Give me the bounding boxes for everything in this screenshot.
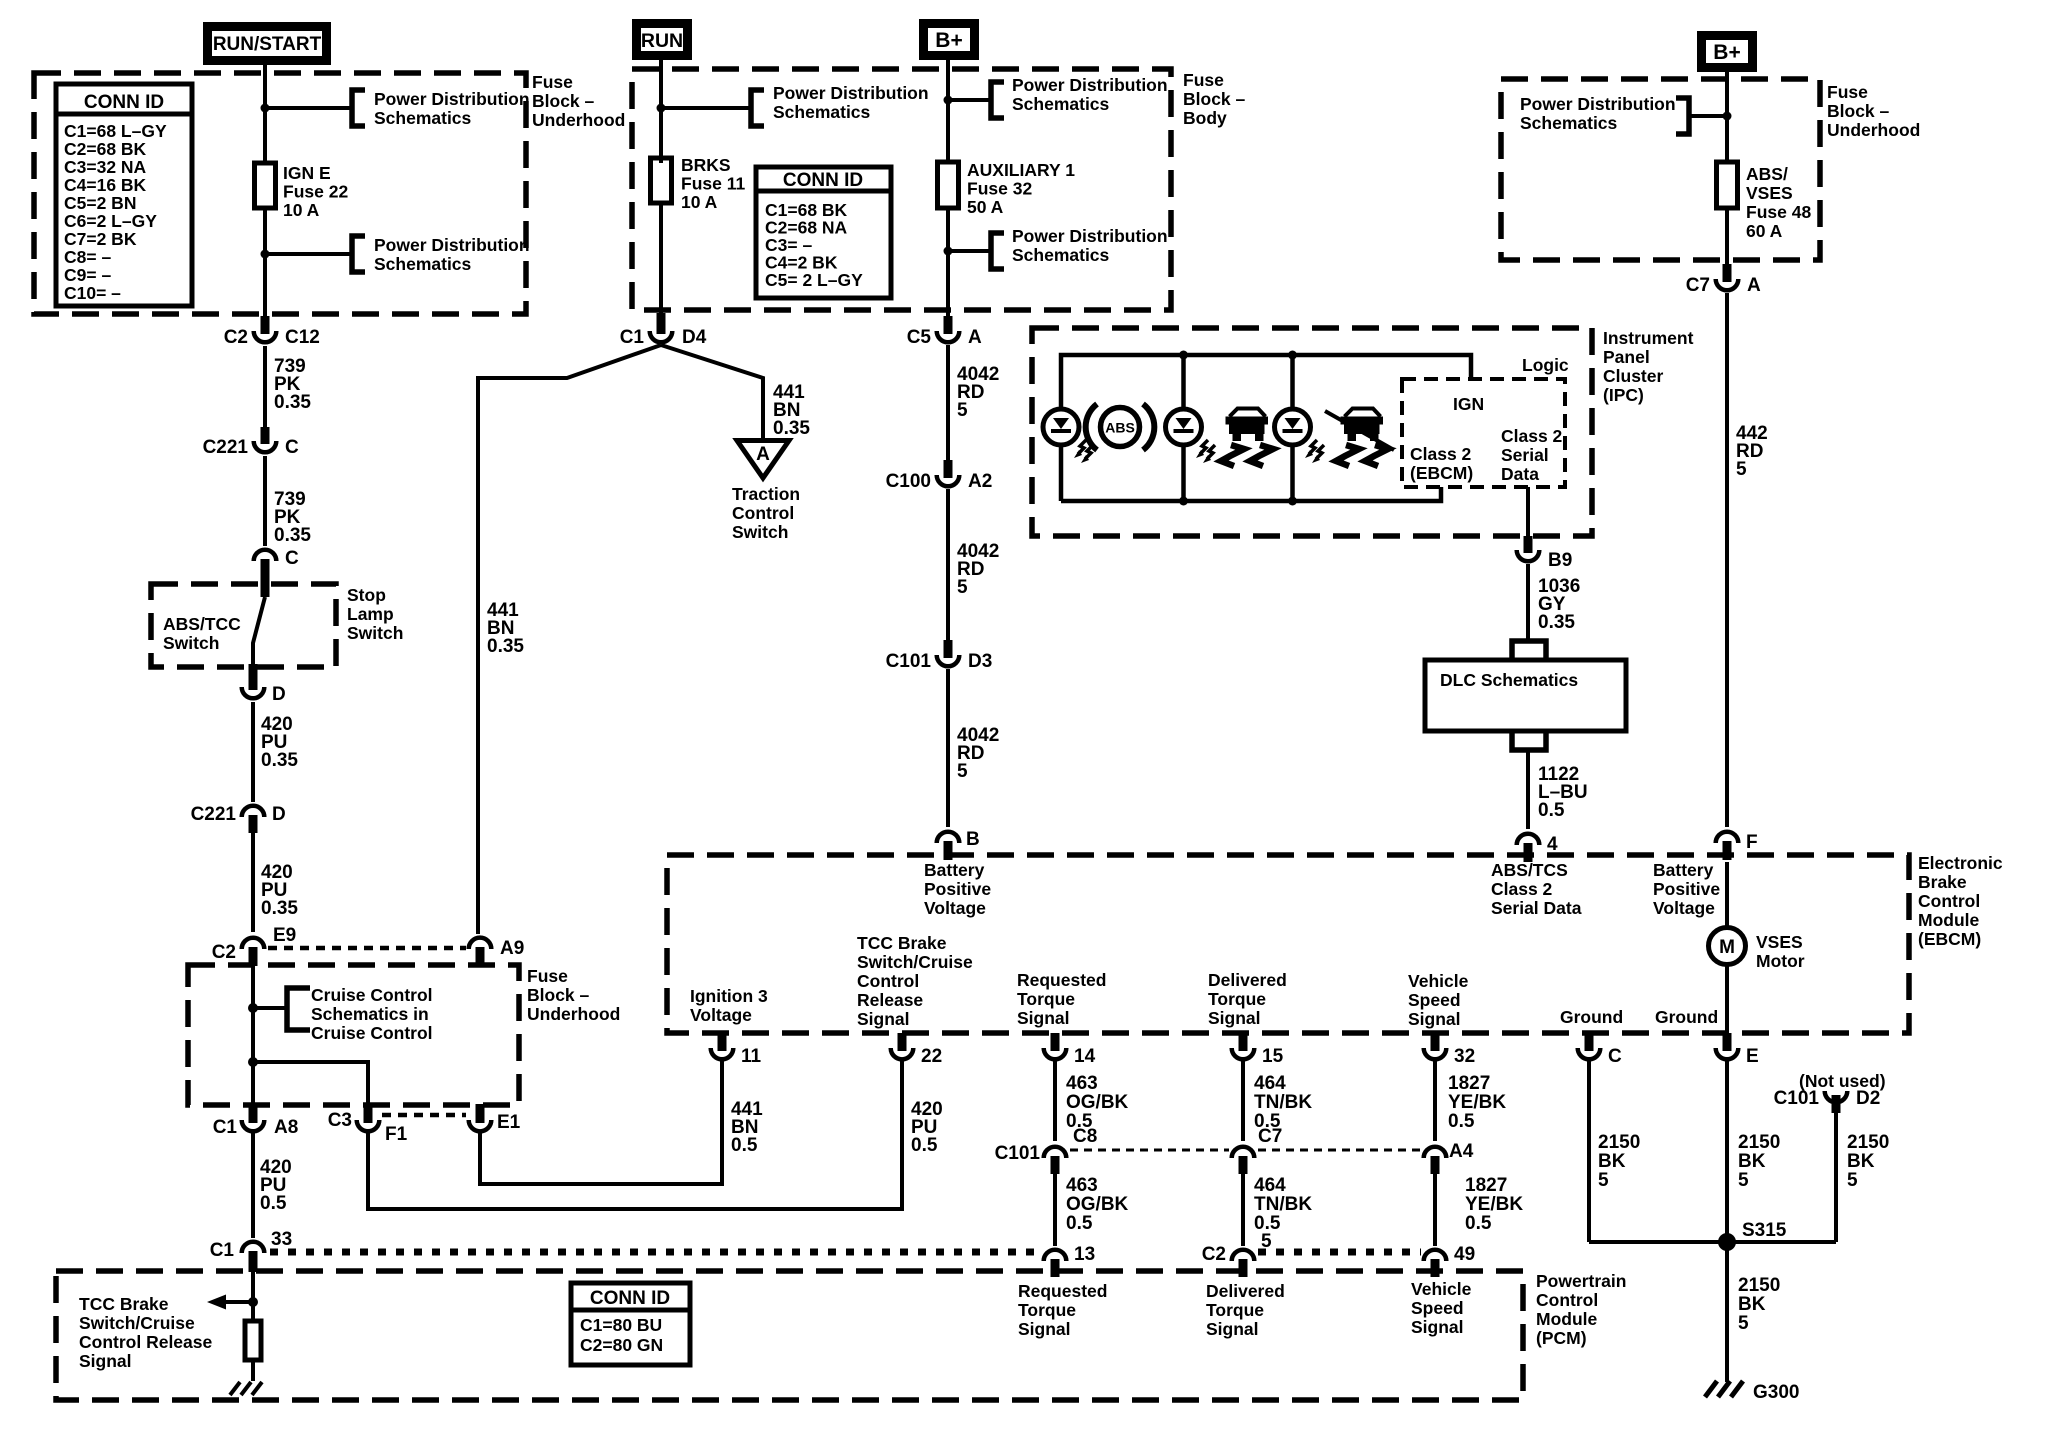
svg-text:Body: Body: [1183, 108, 1227, 128]
svg-text:Torque: Torque: [1018, 1300, 1076, 1320]
svg-text:Signal: Signal: [1206, 1319, 1259, 1339]
svg-text:Block –: Block –: [1183, 89, 1246, 109]
wire C7 down: [1241, 1174, 1245, 1246]
svg-text:0.35: 0.35: [1538, 612, 1575, 633]
connector C1/D4: [620, 313, 707, 348]
svg-text:Fuse: Fuse: [532, 72, 573, 92]
label battery positive voltage (mid): [924, 860, 991, 918]
svg-text:D4: D4: [682, 327, 707, 348]
wire junction to F1: [253, 1062, 368, 1106]
label electronic brake control module: [1918, 853, 2003, 949]
svg-text:E: E: [1746, 1046, 1759, 1067]
wire D4 left branch: [478, 345, 661, 934]
svg-text:E9: E9: [273, 925, 296, 946]
connector C221/C: [203, 427, 299, 458]
svg-text:Ignition 3: Ignition 3: [690, 986, 768, 1006]
ground (PCM internal): [230, 1382, 262, 1395]
node junction cruise 1: [248, 1003, 258, 1013]
label wire 2150 BK 5 (C): [1598, 1132, 1640, 1191]
wire 420 PU: [251, 702, 255, 802]
indicator lamp 3 (traction off): [1275, 409, 1325, 463]
off-page bracket power distribution 6: [1676, 98, 1689, 134]
svg-text:Voltage: Voltage: [690, 1005, 752, 1025]
svg-text:Control: Control: [1918, 891, 1980, 911]
svg-text:Class 2: Class 2: [1501, 426, 1563, 446]
label traction control switch: [732, 484, 800, 542]
wire 442 RD down: [1725, 293, 1729, 827]
svg-text:VSES: VSES: [1746, 183, 1793, 203]
svg-text:60 A: 60 A: [1746, 221, 1783, 241]
svg-text:ABS/TCC: ABS/TCC: [163, 614, 241, 634]
wire BRKS down: [659, 203, 663, 315]
svg-text:Serial: Serial: [1501, 445, 1549, 465]
connector B (EBCM): [937, 829, 980, 860]
svg-text:S315: S315: [1742, 1220, 1787, 1241]
connector D: [242, 664, 286, 705]
wire pin32 down: [1433, 1059, 1437, 1141]
node junction lower left: [261, 250, 270, 259]
connector C101/D2: [1774, 1088, 1881, 1113]
wire 1036 GY: [1526, 564, 1530, 640]
label wire 420 PU 0.35 (2): [261, 862, 298, 919]
svg-text:1827: 1827: [1448, 1073, 1490, 1094]
svg-text:C3=32 NA: C3=32 NA: [64, 157, 147, 177]
svg-text:33: 33: [271, 1229, 292, 1250]
svg-text:(PCM): (PCM): [1536, 1328, 1587, 1348]
svg-text:13: 13: [1074, 1244, 1095, 1265]
connector C (stop lamp switch): [254, 548, 299, 597]
svg-text:Fuse: Fuse: [527, 966, 568, 986]
svg-text:49: 49: [1454, 1244, 1475, 1265]
svg-text:Vehicle: Vehicle: [1411, 1279, 1472, 1299]
wire to power distribution ref 4: [948, 98, 989, 102]
svg-text:YE/BK: YE/BK: [1465, 1194, 1523, 1215]
label power distribution schematics 1: [374, 89, 530, 128]
svg-text:Cluster: Cluster: [1603, 366, 1663, 386]
svg-text:IGN: IGN: [1453, 394, 1484, 414]
label wire 4042 RD 5 (2): [957, 541, 999, 598]
label vehicle speed signal (PCM): [1411, 1279, 1472, 1337]
svg-text:Panel: Panel: [1603, 347, 1650, 367]
svg-text:Underhood: Underhood: [1827, 120, 1920, 140]
svg-text:A9: A9: [500, 938, 524, 959]
svg-text:D: D: [272, 684, 286, 705]
svg-text:OG/BK: OG/BK: [1066, 1092, 1129, 1113]
svg-text:0.5: 0.5: [1066, 1213, 1093, 1234]
svg-text:Underhood: Underhood: [532, 110, 625, 130]
label power distribution schematics 5: [1012, 226, 1168, 265]
label power distribution schematics 6: [1520, 94, 1676, 133]
svg-text:4: 4: [1547, 834, 1558, 855]
pin 14: [1044, 1033, 1096, 1067]
off-page bracket power distribution 4: [991, 82, 1004, 118]
connector C100/A2: [886, 460, 993, 492]
connector A9: [469, 938, 525, 966]
pin 15: [1232, 1033, 1284, 1067]
svg-text:Signal: Signal: [79, 1351, 132, 1371]
svg-text:Lamp: Lamp: [347, 604, 394, 624]
dotted line F1 to E1: [382, 1113, 466, 1118]
wire B+ middle down: [946, 55, 950, 162]
svg-text:11: 11: [741, 1046, 762, 1067]
label wire 420 PU 0.5 (pin22): [911, 1099, 943, 1156]
svg-text:B9: B9: [1548, 550, 1572, 571]
svg-text:RUN: RUN: [641, 30, 683, 52]
svg-text:C101: C101: [886, 651, 932, 672]
power label RUN: [637, 24, 688, 56]
label requested torque signal (PCM): [1018, 1281, 1107, 1339]
off-page bracket DLC bottom: [1512, 733, 1546, 750]
svg-text:A2: A2: [968, 471, 992, 492]
svg-text:Schematics: Schematics: [1520, 113, 1618, 133]
label class 2 EBCM: [1410, 444, 1473, 483]
svg-text:0.35: 0.35: [261, 898, 298, 919]
label class 2 serial data: [1501, 426, 1563, 484]
svg-text:DLC Schematics: DLC Schematics: [1440, 670, 1578, 690]
svg-text:B+: B+: [935, 29, 962, 52]
svg-text:2150: 2150: [1598, 1132, 1640, 1153]
svg-text:Signal: Signal: [1411, 1317, 1464, 1337]
svg-text:Ground: Ground: [1560, 1007, 1623, 1027]
svg-text:Electronic: Electronic: [1918, 853, 2003, 873]
svg-text:C: C: [285, 548, 299, 569]
svg-text:Delivered: Delivered: [1208, 970, 1287, 990]
DLC schematics box: [1425, 660, 1626, 731]
cruise control fuse block box: [188, 965, 519, 1105]
svg-text:VSES: VSES: [1756, 932, 1803, 952]
svg-text:D: D: [272, 804, 286, 825]
svg-text:BRKS: BRKS: [681, 155, 731, 175]
svg-text:Switch/Cruise: Switch/Cruise: [857, 952, 973, 972]
svg-text:C100: C100: [886, 471, 931, 492]
svg-text:Signal: Signal: [1208, 1008, 1261, 1028]
label wire 1122 L-BU 0.5: [1538, 764, 1588, 821]
wire RUN down: [659, 55, 663, 163]
indicator lamp 2 (traction active): [1166, 409, 1216, 463]
svg-text:F1: F1: [385, 1124, 408, 1145]
svg-text:YE/BK: YE/BK: [1448, 1092, 1506, 1113]
wire B+ right down: [1725, 67, 1729, 162]
label fuse block body: [1183, 70, 1246, 128]
svg-text:Fuse 32: Fuse 32: [967, 179, 1032, 199]
svg-text:Serial Data: Serial Data: [1491, 898, 1582, 918]
svg-text:A: A: [1747, 275, 1761, 296]
svg-text:Switch/Cruise: Switch/Cruise: [79, 1313, 195, 1333]
svg-text:Switch: Switch: [347, 623, 403, 643]
label power distribution schematics 4: [1012, 75, 1168, 114]
svg-text:BK: BK: [1847, 1151, 1875, 1172]
svg-text:Schematics: Schematics: [374, 108, 472, 128]
svg-text:C8= –: C8= –: [64, 247, 111, 267]
svg-text:TCC Brake: TCC Brake: [79, 1294, 169, 1314]
svg-text:Torque: Torque: [1208, 989, 1266, 1009]
svg-text:C1=80 BU: C1=80 BU: [580, 1315, 662, 1335]
off-page triangle A traction control: [737, 441, 789, 479]
label wire 739 PK 0.35 upper: [274, 356, 311, 413]
icon car skidding: [1221, 409, 1273, 467]
svg-text:(EBCM): (EBCM): [1918, 929, 1981, 949]
pin 5 connector C2 (PCM): [1202, 1231, 1272, 1277]
svg-text:CONN ID: CONN ID: [84, 92, 164, 113]
dotted signal line 33 to pin 13: [270, 1249, 1041, 1256]
label wire 2150 BK 5 (E): [1738, 1132, 1780, 1191]
svg-text:464: 464: [1254, 1073, 1286, 1094]
label wire 4042 RD 5 (1): [957, 364, 999, 421]
svg-text:Control Release: Control Release: [79, 1332, 212, 1352]
svg-text:0.5: 0.5: [1538, 800, 1565, 821]
svg-text:OG/BK: OG/BK: [1066, 1194, 1129, 1215]
svg-text:BK: BK: [1598, 1151, 1626, 1172]
label wire 442 RD 5: [1736, 423, 1768, 480]
svg-text:Block –: Block –: [532, 91, 595, 111]
svg-text:Release: Release: [857, 990, 923, 1010]
wire 420 PU 2: [251, 833, 255, 932]
label wire 4042 RD 5 (3): [957, 725, 999, 782]
CONN ID table (PCM): [571, 1283, 690, 1365]
node S315: [1718, 1233, 1736, 1251]
svg-text:0.5: 0.5: [1465, 1213, 1492, 1234]
svg-text:Power Distribution: Power Distribution: [773, 83, 929, 103]
svg-text:ABS/TCS: ABS/TCS: [1491, 860, 1568, 880]
svg-text:Brake: Brake: [1918, 872, 1967, 892]
svg-text:5: 5: [1598, 1170, 1609, 1191]
svg-text:464: 464: [1254, 1175, 1286, 1196]
svg-text:Control: Control: [732, 503, 794, 523]
svg-text:(EBCM): (EBCM): [1410, 463, 1473, 483]
ABS/TCC switch box: [151, 584, 336, 667]
label wire 1827 YE/BK 0.5 (lower): [1465, 1175, 1523, 1234]
svg-text:2150: 2150: [1738, 1275, 1780, 1296]
wire D4 right branch: [661, 345, 763, 438]
svg-text:5: 5: [1738, 1313, 1749, 1334]
label wire 441 BN 0.35 (right): [773, 382, 810, 439]
svg-text:CONN ID: CONN ID: [590, 1288, 670, 1309]
svg-text:463: 463: [1066, 1073, 1098, 1094]
node junction upper left: [261, 104, 270, 113]
svg-text:G300: G300: [1753, 1382, 1799, 1403]
svg-text:463: 463: [1066, 1175, 1098, 1196]
wire pin11 to E1: [480, 1059, 722, 1184]
svg-text:Schematics: Schematics: [1012, 94, 1110, 114]
svg-text:Signal: Signal: [1017, 1008, 1070, 1028]
svg-text:Vehicle: Vehicle: [1408, 971, 1469, 991]
label power distribution schematics 3: [773, 83, 929, 122]
dotted line E9 to A9: [268, 946, 466, 951]
label wire 464 TN/BK 0.5 (upper): [1254, 1073, 1312, 1132]
svg-text:E1: E1: [497, 1112, 521, 1133]
fuse AUXILIARY 1 Fuse 32: [938, 160, 1076, 217]
svg-text:Module: Module: [1918, 910, 1980, 930]
svg-text:Power Distribution: Power Distribution: [374, 89, 530, 109]
svg-text:F: F: [1746, 832, 1758, 853]
connector C1/33: [210, 1229, 292, 1272]
svg-text:C2: C2: [212, 942, 236, 963]
wire pin E down: [1725, 1059, 1729, 1242]
svg-text:Fuse: Fuse: [1827, 82, 1868, 102]
svg-text:C7=2 BK: C7=2 BK: [64, 229, 137, 249]
svg-text:C10= –: C10= –: [64, 283, 121, 303]
fuse block underhood box (right): [1501, 79, 1820, 260]
svg-text:Switch: Switch: [732, 522, 788, 542]
connector E1: [469, 1104, 521, 1133]
svg-text:0.5: 0.5: [911, 1135, 938, 1156]
label delivered torque signal (PCM): [1206, 1281, 1285, 1339]
svg-text:B: B: [966, 829, 980, 850]
connector F (EBCM): [1716, 832, 1758, 860]
connector B9: [1517, 536, 1573, 571]
svg-text:5: 5: [957, 577, 968, 598]
svg-text:IGN E: IGN E: [283, 163, 331, 183]
svg-text:2150: 2150: [1738, 1132, 1780, 1153]
svg-text:0.35: 0.35: [274, 392, 311, 413]
svg-text:Requested: Requested: [1017, 970, 1106, 990]
svg-text:C221: C221: [191, 804, 237, 825]
svg-text:Signal: Signal: [1018, 1319, 1071, 1339]
svg-text:C6=2 L–GY: C6=2 L–GY: [64, 211, 157, 231]
svg-text:Traction: Traction: [732, 484, 800, 504]
label wire 441 BN 0.5: [731, 1099, 763, 1156]
connector C7/A: [1686, 264, 1761, 296]
off-page bracket power distribution 5: [991, 233, 1004, 269]
svg-text:CONN ID: CONN ID: [783, 170, 863, 191]
CONN ID table (middle): [756, 167, 891, 298]
svg-text:10 A: 10 A: [681, 192, 718, 212]
power label RUN/START: [208, 27, 327, 61]
svg-text:50 A: 50 A: [967, 197, 1004, 217]
pin 22: [891, 1033, 942, 1067]
svg-text:Delivered: Delivered: [1206, 1281, 1285, 1301]
label instrument panel cluster: [1603, 328, 1694, 405]
svg-text:A8: A8: [274, 1117, 298, 1138]
svg-text:M: M: [1719, 937, 1735, 958]
pin 11: [711, 1033, 762, 1067]
pin E: [1716, 1033, 1759, 1067]
svg-text:ABS/: ABS/: [1746, 164, 1788, 184]
svg-text:5: 5: [1736, 459, 1747, 480]
svg-text:Power Distribution: Power Distribution: [1012, 75, 1168, 95]
svg-text:C1: C1: [213, 1117, 238, 1138]
EBCM box: [667, 855, 1909, 1033]
svg-text:Schematics: Schematics: [773, 102, 871, 122]
svg-text:Fuse 48: Fuse 48: [1746, 202, 1811, 222]
label delivered torque signal (EBCM): [1208, 970, 1287, 1028]
svg-text:C2: C2: [224, 327, 248, 348]
svg-text:Voltage: Voltage: [924, 898, 986, 918]
node junction cruise 2: [248, 1057, 258, 1067]
svg-text:B+: B+: [1713, 41, 1740, 64]
motor M VSES: [1709, 928, 1746, 965]
connector C8: [1044, 1126, 1098, 1174]
wire pin C down: [1587, 1059, 1591, 1242]
node junction arrow: [248, 1297, 258, 1307]
wire to power distribution ref 1: [265, 106, 350, 110]
svg-text:TN/BK: TN/BK: [1254, 1194, 1312, 1215]
IGN logic box: [1402, 379, 1565, 487]
svg-text:Control: Control: [857, 971, 919, 991]
connector A4: [1424, 1141, 1474, 1174]
svg-text:Module: Module: [1536, 1309, 1598, 1329]
wire pin15 down: [1241, 1059, 1245, 1141]
svg-text:0.35: 0.35: [261, 750, 298, 771]
connector C1/A8: [213, 1104, 299, 1138]
label ignition 3 voltage: [690, 986, 768, 1025]
pin 13 (PCM): [1044, 1244, 1095, 1277]
wire fuse22 down: [263, 208, 267, 320]
node dots IPC bus: [1179, 351, 1297, 506]
svg-text:Signal: Signal: [857, 1009, 910, 1029]
connector C2/E9: [212, 925, 297, 966]
svg-text:Battery: Battery: [1653, 860, 1714, 880]
label stop lamp switch: [347, 585, 403, 643]
off-page bracket DLC top: [1512, 641, 1546, 658]
svg-text:C101: C101: [995, 1143, 1041, 1164]
svg-text:0.5: 0.5: [1448, 1111, 1475, 1132]
ground bus wire: [1589, 1240, 1836, 1244]
label wire 2150 BK 5 (D2): [1847, 1132, 1889, 1191]
svg-text:5: 5: [1847, 1170, 1858, 1191]
power label B+ (middle): [924, 24, 975, 56]
label ABS/TCC Switch: [163, 614, 241, 653]
wire to cruise control ref: [253, 1006, 286, 1010]
svg-text:0.5: 0.5: [731, 1135, 758, 1156]
svg-text:Schematics: Schematics: [374, 254, 472, 274]
svg-text:Power Distribution: Power Distribution: [374, 235, 530, 255]
wire to power distribution ref 3: [661, 106, 749, 110]
svg-text:Requested: Requested: [1018, 1281, 1107, 1301]
svg-text:C3: C3: [328, 1110, 352, 1131]
off-page bracket power distribution 3: [751, 90, 764, 126]
svg-text:22: 22: [921, 1046, 942, 1067]
wire to power distribution ref 2: [265, 252, 350, 256]
arrow to TCC signal: [207, 1295, 253, 1310]
label wire 420 PU 0.35: [261, 714, 298, 771]
connector 4 (EBCM): [1517, 834, 1558, 862]
dotted line C2 to 49: [1258, 1249, 1421, 1256]
svg-text:Power Distribution: Power Distribution: [1520, 94, 1676, 114]
power label B+ (right): [1702, 36, 1753, 68]
svg-text:Data: Data: [1501, 464, 1539, 484]
wire C8 down: [1053, 1174, 1057, 1246]
svg-text:0.35: 0.35: [274, 525, 311, 546]
instrument panel cluster box: [1032, 328, 1592, 536]
wire 4042 RD seg3: [946, 669, 950, 827]
wire 1122 L-BU: [1526, 750, 1530, 829]
svg-text:Motor: Motor: [1756, 951, 1805, 971]
resistor (pull-up): [245, 1321, 261, 1381]
svg-text:Schematics in: Schematics in: [311, 1004, 429, 1024]
svg-text:Speed: Speed: [1411, 1298, 1464, 1318]
svg-text:Positive: Positive: [1653, 879, 1720, 899]
svg-text:Schematics: Schematics: [1012, 245, 1110, 265]
svg-text:Fuse: Fuse: [1183, 70, 1224, 90]
svg-text:BK: BK: [1738, 1294, 1766, 1315]
dashed line C8 to C7: [1070, 1149, 1229, 1152]
PCM box: [56, 1271, 1523, 1400]
pin C: [1578, 1033, 1622, 1067]
svg-text:0.35: 0.35: [773, 418, 810, 439]
svg-text:Speed: Speed: [1408, 990, 1461, 1010]
svg-text:C2=68 BK: C2=68 BK: [64, 139, 147, 159]
wire serial data down: [1526, 487, 1530, 538]
wire bracket to B+ right: [1689, 114, 1727, 118]
ground G300: [1705, 1381, 1743, 1397]
svg-text:C101: C101: [1774, 1088, 1820, 1109]
svg-text:TCC Brake: TCC Brake: [857, 933, 947, 953]
connector C2/C12: [224, 316, 320, 348]
label VSES motor: [1756, 932, 1805, 971]
svg-text:Class 2: Class 2: [1491, 879, 1553, 899]
svg-text:C2=80 GN: C2=80 GN: [580, 1335, 663, 1355]
